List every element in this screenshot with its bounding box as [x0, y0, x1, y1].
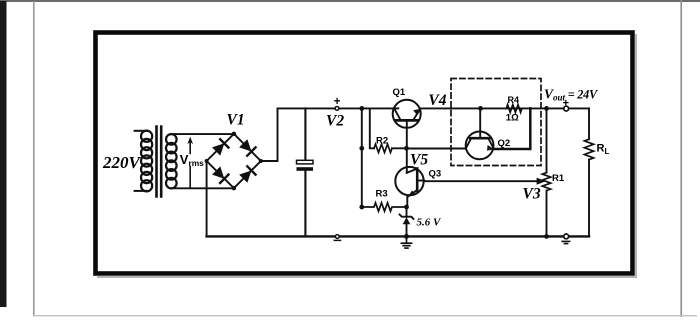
wire RL drop	[588, 108, 590, 139]
page left grey rule	[33, 1, 35, 315]
transistor Q2	[466, 108, 495, 159]
terminal minus tick marks	[562, 241, 569, 243]
wire bridge minus drop	[206, 161, 208, 236]
svg-text:220V: 220V	[102, 153, 142, 172]
R1 wiper arrowhead	[537, 178, 546, 185]
output terminal plus	[564, 106, 569, 111]
node dot R1 bottom	[544, 234, 549, 239]
wire secondary bottom lead	[171, 187, 234, 189]
svg-text:R3: R3	[376, 189, 388, 200]
svg-text:Q2: Q2	[498, 138, 511, 149]
wire R1 top	[546, 108, 548, 172]
wire secondary top lead	[171, 133, 234, 135]
terminal circle at V2	[335, 107, 339, 111]
wire left bias rail	[361, 108, 363, 207]
wire bridge plus riser	[261, 108, 278, 161]
zener diode 5.6V	[400, 207, 414, 236]
wire Q3 base to R1 wiper	[424, 180, 538, 182]
svg-text:R1: R1	[552, 173, 565, 184]
svg-text:V4: V4	[428, 92, 446, 109]
svg-text:V2: V2	[326, 113, 344, 130]
transformer core	[157, 127, 162, 197]
diode D4 (bottom-right)	[239, 166, 255, 183]
resistor R2	[374, 144, 392, 152]
node dot bridge left	[205, 159, 209, 163]
capacitor C1 plates	[297, 160, 314, 171]
schematic border frame	[96, 33, 633, 274]
potentiometer R1	[542, 173, 550, 191]
node dot Q2 base tap	[478, 106, 483, 111]
wire top rail	[278, 107, 394, 109]
wire Q1 emitter to output rail	[420, 107, 546, 109]
wire Vout to RL corner	[547, 107, 590, 109]
node dot R3 rail	[359, 205, 364, 210]
Vrms measurement arrow	[187, 137, 193, 189]
resistor R4	[506, 105, 522, 113]
svg-text:V3: V3	[523, 186, 541, 203]
transistor Q1	[393, 100, 421, 149]
diode D3 (bottom-left)	[212, 166, 228, 183]
svg-text:1Ω: 1Ω	[506, 113, 519, 124]
node dot bridge top	[232, 132, 236, 136]
output terminal minus	[564, 234, 569, 239]
svg-text:Vrms: Vrms	[180, 152, 204, 168]
node dot V5 junction	[404, 146, 409, 151]
page left black bar	[0, 1, 7, 307]
svg-text:V5: V5	[410, 152, 428, 169]
wire V5 node to Q2 collector	[407, 148, 466, 150]
node dot zener top junction	[404, 205, 409, 210]
node dot R2 rail	[359, 146, 364, 151]
wire bottom rail	[207, 235, 589, 237]
diode D2 (top-right)	[239, 139, 255, 156]
ground symbol	[401, 236, 411, 248]
page top edge line	[0, 0, 700, 2]
svg-text:5.6 V: 5.6 V	[417, 216, 443, 228]
resistor R3	[362, 203, 407, 211]
transformer T1 primary winding	[135, 131, 153, 192]
capacitor C1 top lead	[304, 108, 306, 159]
node dot bridge right	[259, 159, 263, 163]
svg-text:Q1: Q1	[393, 87, 406, 98]
svg-text:R2: R2	[376, 136, 388, 147]
dashed current-limiter box	[451, 79, 541, 166]
page bottom grey rule	[33, 315, 697, 316]
transistor Q3	[395, 148, 424, 207]
wire RL to bottom rail	[588, 160, 590, 237]
wire R1 bottom	[546, 191, 548, 237]
transformer T1 secondary winding	[166, 134, 177, 188]
svg-text:Q3: Q3	[429, 169, 442, 180]
node dot bridge bottom	[232, 186, 236, 190]
svg-text:R4: R4	[508, 95, 520, 105]
diode D1 (top-left)	[212, 139, 228, 155]
node dot left rail top	[359, 106, 364, 111]
wire Q2 emitter to R4 right	[494, 108, 531, 149]
wire R2 to V5 node	[392, 147, 407, 149]
capacitor C1 bottom lead	[304, 171, 306, 237]
svg-text:+: +	[563, 97, 569, 109]
resistor RL	[584, 139, 593, 159]
bridge rectifier V1 diamond	[207, 134, 261, 188]
svg-text:Vout = 24V: Vout = 24V	[544, 87, 599, 103]
node dot zener bottom	[404, 234, 409, 239]
node dot Vout junction	[544, 106, 549, 111]
wire R2 feed from rail	[370, 108, 374, 148]
small terminal mark on rail	[334, 235, 340, 241]
svg-text:V1: V1	[227, 111, 245, 128]
page right grey rule	[680, 0, 682, 317]
svg-text:RL: RL	[597, 143, 610, 157]
